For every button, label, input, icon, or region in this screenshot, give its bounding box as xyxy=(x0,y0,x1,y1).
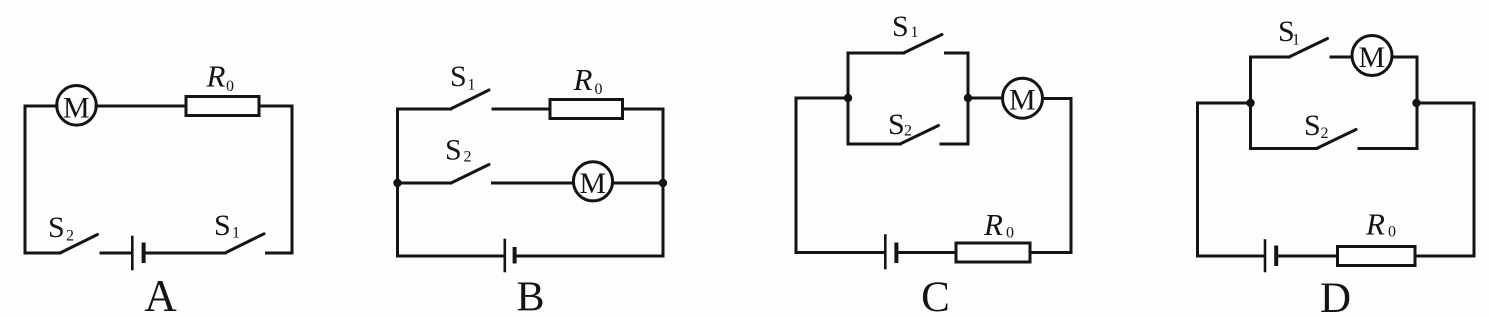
wire junction to motor (circuit C) xyxy=(968,97,1002,100)
wire A top-left to motor xyxy=(25,105,57,108)
wire B right vertical xyxy=(662,109,665,256)
svg-text:S: S xyxy=(445,134,462,167)
wire D main left to junction xyxy=(1198,102,1251,105)
svg-text:A: A xyxy=(144,271,177,317)
svg-text:1: 1 xyxy=(1292,32,1300,49)
switch S2 blade (circuit C) xyxy=(900,126,939,145)
label S1 (circuit C) xyxy=(892,10,919,43)
svg-text:M: M xyxy=(63,92,90,125)
switch S1 blade (circuit B) xyxy=(451,90,490,109)
label S2 (circuit C) xyxy=(888,108,912,141)
node junction left (circuit B) xyxy=(393,179,401,187)
wire parallel-box left edge (circuit C) xyxy=(847,53,850,144)
svg-text:R: R xyxy=(206,59,226,94)
svg-text:B: B xyxy=(516,275,544,317)
svg-text:2: 2 xyxy=(1321,125,1329,142)
svg-text:S: S xyxy=(892,10,909,43)
wire motor to right junction (circuit B) xyxy=(613,182,663,185)
wire junction to right vertical (circuit D) xyxy=(1417,102,1474,105)
wire switch S2 to box bottom-right corner (circuit D) xyxy=(1359,147,1417,150)
switch S1 blade (circuit C) xyxy=(904,35,943,54)
wire battery to resistor (circuit C) xyxy=(898,251,956,254)
wire resistor to top-right corner (circuit B) xyxy=(623,108,664,111)
node junction left (circuit D) xyxy=(1246,99,1254,107)
label S1 (circuit B) xyxy=(450,60,476,94)
wire B left vertical xyxy=(396,109,399,256)
svg-text:M: M xyxy=(579,167,606,200)
wire switch S1 to box top-right corner (circuit C) xyxy=(946,52,969,55)
wire C bottom-left to battery xyxy=(796,251,884,254)
svg-text:0: 0 xyxy=(595,81,603,98)
wire parallel-box right edge (circuit D) xyxy=(1416,57,1419,149)
svg-text:0: 0 xyxy=(1006,225,1014,242)
wire B bottom-left to battery xyxy=(398,255,504,258)
node junction right (circuit D) xyxy=(1412,99,1420,107)
svg-text:0: 0 xyxy=(1388,224,1396,241)
svg-text:1: 1 xyxy=(468,77,476,94)
svg-text:S: S xyxy=(214,209,231,242)
node junction right (circuit C) xyxy=(964,94,972,102)
wire A left vertical xyxy=(24,106,27,253)
svg-text:D: D xyxy=(1320,275,1351,317)
svg-text:R: R xyxy=(573,62,593,97)
label R0 (circuit D) xyxy=(1365,207,1396,242)
wire switch S1 to resistor (circuit B) xyxy=(493,108,550,111)
svg-text:2: 2 xyxy=(66,228,74,245)
wire B top-left to switch S1 xyxy=(398,108,451,111)
switch S1 blade (circuit A) xyxy=(225,234,264,253)
wire D left vertical xyxy=(1196,103,1199,256)
wire middle branch left to switch S2 (circuit B) xyxy=(398,182,452,185)
resistor R0 (circuit D) xyxy=(1338,247,1416,266)
battery (circuit A) xyxy=(132,237,143,269)
wire resistor to right corner (circuit A) xyxy=(259,105,292,108)
wire A bottom-left to switch S2 xyxy=(25,252,60,255)
wire box top branch to switch S1 (circuit C) xyxy=(848,52,904,55)
wire resistor to bottom-right corner (circuit C) xyxy=(1030,251,1071,254)
wire A right vertical xyxy=(291,106,294,253)
battery (circuit B) xyxy=(505,240,515,271)
wire battery to bottom-right corner (circuit B) xyxy=(517,255,664,258)
label R0 (circuit B) xyxy=(573,62,603,98)
wire switch S2 to battery (circuit A) xyxy=(101,252,130,255)
label S2 (circuit A) xyxy=(48,211,74,245)
resistor R0 (circuit B) xyxy=(550,100,623,119)
wire motor to resistor R0 (circuit A) xyxy=(96,105,186,108)
switch S2 blade (circuit D) xyxy=(1317,130,1357,149)
label S1 (circuit A) xyxy=(214,209,240,242)
svg-text:S: S xyxy=(48,211,65,244)
svg-text:M: M xyxy=(1009,84,1036,117)
wire motor to box top-right corner (circuit D) xyxy=(1392,56,1417,59)
wire box top branch to switch S1 (circuit D) xyxy=(1251,56,1290,59)
switch S2 blade (circuit B) xyxy=(451,165,489,184)
wire D right vertical xyxy=(1473,103,1476,256)
label R0 (circuit A) xyxy=(206,59,235,96)
switch S2 blade (circuit A) xyxy=(60,235,98,254)
motor M (circuit C) xyxy=(1003,78,1043,118)
wire resistor to bottom-right corner (circuit D) xyxy=(1415,255,1474,258)
wire C left vertical xyxy=(795,98,798,253)
wire motor to right vertical (circuit C) xyxy=(1043,97,1072,100)
switch S1 blade (circuit D) xyxy=(1289,39,1328,58)
resistor R0 (circuit C) xyxy=(956,243,1030,262)
svg-text:S: S xyxy=(1304,109,1321,142)
motor M (circuit A) xyxy=(57,86,97,126)
battery (circuit C) xyxy=(885,236,896,269)
wire battery to resistor (circuit D) xyxy=(1278,255,1338,258)
label S2 (circuit B) xyxy=(445,134,472,167)
label R0 (circuit C) xyxy=(983,207,1014,242)
svg-text:0: 0 xyxy=(226,78,234,95)
motor M (circuit D) xyxy=(1352,36,1392,76)
wire box bottom branch to switch S2 (circuit D) xyxy=(1251,147,1317,150)
wire parallel-box left edge (circuit D) xyxy=(1249,57,1252,149)
svg-text:M: M xyxy=(1358,41,1385,74)
wire D bottom-left to battery xyxy=(1198,255,1264,258)
wire switch S1 to bottom-right corner (circuit A) xyxy=(267,252,293,255)
svg-text:2: 2 xyxy=(464,149,472,166)
svg-text:R: R xyxy=(983,207,1003,242)
wire switch S1 to motor (circuit D) xyxy=(1331,56,1352,59)
resistor R0 (circuit A) xyxy=(186,97,259,116)
svg-text:1: 1 xyxy=(911,24,919,41)
label S1 (circuit D) xyxy=(1278,15,1300,49)
wire parallel-box right edge (circuit C) xyxy=(967,53,970,144)
node junction right (circuit B) xyxy=(659,179,667,187)
wire switch S2 to box bottom-right corner (circuit C) xyxy=(941,143,968,146)
wire C main left to junction xyxy=(796,97,848,100)
svg-text:S: S xyxy=(450,60,467,93)
label S2 (circuit D) xyxy=(1304,109,1329,142)
battery (circuit D) xyxy=(1265,241,1276,272)
svg-text:1: 1 xyxy=(232,225,240,242)
motor M (circuit B) xyxy=(573,162,612,201)
wire switch S2 to motor (circuit B) xyxy=(493,182,574,185)
wire box bottom branch to switch S2 (circuit C) xyxy=(848,143,900,146)
wire C right vertical xyxy=(1070,99,1073,253)
svg-text:R: R xyxy=(1365,207,1385,242)
svg-text:S: S xyxy=(888,108,905,141)
svg-text:2: 2 xyxy=(904,123,912,140)
wire battery to switch S1 (circuit A) xyxy=(146,252,226,255)
node junction left (circuit C) xyxy=(844,94,852,102)
svg-text:C: C xyxy=(921,274,950,317)
